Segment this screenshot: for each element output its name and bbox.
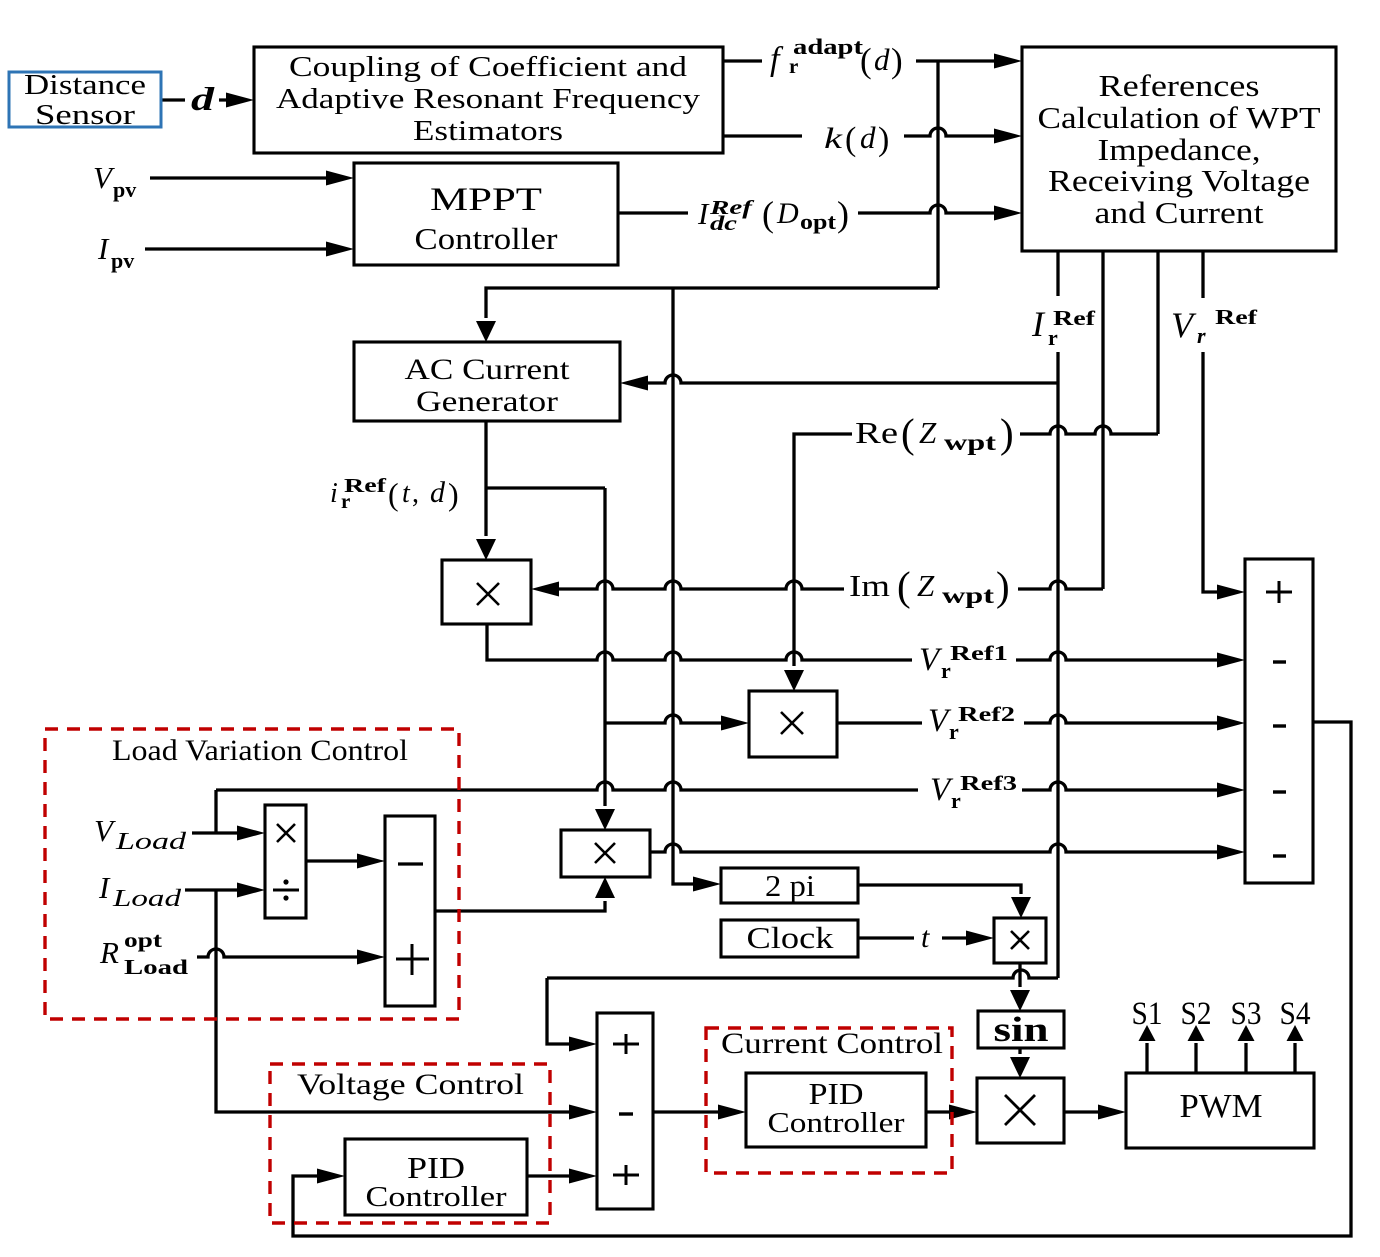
svg-text:(: ( (901, 410, 915, 456)
svg-text:V: V (93, 160, 115, 195)
arrowhead Vr_Ref2 into summer (1217, 716, 1245, 731)
wire sin output down to multiplier M5 (1018, 1048, 1021, 1054)
block Coupling of Coefficient and Adaptive Resonant Frequency Estimators (254, 47, 723, 153)
arrowhead d into Coupling (226, 93, 254, 108)
svg-text:(: ( (388, 476, 399, 512)
arrowhead Ipv into MPPT (326, 242, 354, 257)
block MPPT Controller (354, 163, 618, 265)
svg-text:Z: Z (919, 415, 937, 450)
arrowhead Im into multiplier M1 right (531, 582, 559, 597)
wire Vr_Ref vertical x=1203 from References down into summer plus input (1203, 251, 1221, 592)
symbol minus4 summer right (1273, 854, 1286, 857)
svg-text:wpt: wpt (944, 430, 996, 455)
arrowhead S3 (1238, 1025, 1255, 1041)
svg-text:sin: sin (994, 1010, 1049, 1049)
minus-plus block (385, 816, 435, 1006)
block sin (978, 1011, 1064, 1048)
wire S3 output of PWM (1244, 1043, 1247, 1073)
svg-text:Ref3: Ref3 (960, 771, 1017, 795)
label gap Re (852, 410, 1020, 460)
svg-text:Distance: Distance (24, 70, 146, 101)
arrowhead S2 (1188, 1025, 1205, 1041)
svg-text:References: References (1099, 68, 1260, 103)
wire branch from fr line down-left to AC Current Generator (486, 288, 938, 318)
svg-text:): ) (837, 194, 849, 234)
svg-text:Ref: Ref (1053, 306, 1096, 330)
label gap k(d) (802, 116, 904, 160)
svg-text:k: k (824, 122, 843, 155)
arrowhead Vr_Ref1 into summer (1217, 653, 1245, 668)
svg-text:Z: Z (917, 568, 935, 603)
svg-text:): ) (891, 41, 903, 80)
svg-text:Load: Load (124, 955, 188, 979)
svg-text:PWM: PWM (1180, 1088, 1263, 1125)
svg-text:Controller: Controller (768, 1107, 905, 1139)
symbol times in mult-div (277, 824, 295, 842)
mid summer block (597, 1013, 653, 1209)
wire Vpv input to MPPT (150, 176, 332, 179)
svg-text:2 pi: 2 pi (765, 868, 815, 903)
svg-text:Ref2: Ref2 (958, 702, 1015, 726)
wire d: Distance Sensor to Coupling block (161, 98, 232, 101)
svg-text:Calculation of WPT: Calculation of WPT (1038, 100, 1321, 135)
arrowhead mid summer output into current PID (718, 1105, 746, 1120)
svg-text:I: I (98, 870, 111, 905)
svg-text:(: ( (762, 194, 774, 234)
mult-div block (265, 805, 306, 918)
wire Vr_Ref1: multiplier M1 output to summer, hops at 605 673 794 1058 (487, 624, 1221, 660)
wire fr_adapt(d): Coupling to References, with branch node at x=938 (723, 61, 998, 288)
symbol times M3 (595, 843, 615, 863)
svg-text:Generator: Generator (416, 385, 558, 418)
dashed box Current Control (706, 1028, 952, 1173)
svg-text:Clock: Clock (747, 920, 835, 955)
arrowhead left into AC Current Generator right side (620, 376, 648, 391)
arrowhead S4 (1287, 1025, 1304, 1041)
svg-text:(: ( (845, 121, 856, 158)
arrowhead into 2pi box (693, 877, 721, 892)
block References Calculation (1022, 47, 1336, 251)
arrowhead Vpv into MPPT (326, 171, 354, 186)
svg-text:S4: S4 (1280, 996, 1311, 1032)
svg-text:i: i (330, 478, 338, 509)
svg-text:Controller: Controller (366, 1181, 507, 1213)
svg-text:Sensor: Sensor (35, 100, 136, 131)
symbol plus top mid summer (613, 1034, 639, 1054)
svg-text:d: d (191, 82, 215, 118)
wire voltage PID output to mid summer bottom plus input (527, 1174, 573, 1177)
arrowhead RLoad into minus-plus (357, 950, 385, 965)
svg-text:(: ( (860, 41, 872, 80)
label gap Vr_Ref3 (918, 769, 1022, 813)
wire vertical x=1103 from References to Im line (1101, 251, 1104, 589)
wire Clock output t to multiplier M4 left (858, 936, 970, 939)
arrowhead down into AC Current Generator top (476, 321, 496, 342)
svg-text:t: t (921, 921, 930, 954)
summer right block (1245, 559, 1313, 883)
wire vertical x=1158 from References to Re line (1156, 251, 1159, 434)
block Distance Sensor (blue) (9, 72, 161, 127)
svg-text:Estimators: Estimators (413, 115, 563, 147)
wire from x=605 node to multiplier M2 left input, hop at x=673 (605, 715, 725, 723)
arrowhead down into multiplier M3 top (595, 809, 615, 830)
arrowhead Vr_Ref into summer plus (1217, 585, 1245, 600)
dashed box Load Variation Control (45, 729, 459, 1019)
svg-text:d: d (874, 42, 890, 77)
symbol plus summer right (1266, 581, 1292, 603)
symbol times M5 (1005, 1095, 1035, 1125)
symbol divide in mult-div (273, 889, 299, 892)
svg-text:AC Current: AC Current (405, 353, 571, 386)
svg-text:D: D (776, 197, 799, 230)
arrowhead voltage PID output into mid summer bottom plus (569, 1169, 597, 1184)
symbol times M2 (781, 712, 803, 734)
svg-text:opt: opt (124, 928, 162, 952)
svg-text:pv: pv (113, 177, 136, 202)
symbol times M1 (477, 583, 499, 605)
arrowhead down into multiplier M1 top (476, 539, 496, 560)
wire mult-div block output to minus-plus block (306, 859, 361, 862)
wire feedback: summer output right, down, along bottom, up into voltage PID (293, 722, 1351, 1236)
svg-text:Adaptive Resonant Frequency: Adaptive Resonant Frequency (276, 83, 701, 115)
label gap d (185, 84, 219, 116)
svg-text:and Current: and Current (1095, 195, 1264, 230)
symbol minus2 summer right (1273, 724, 1286, 727)
wire multiplier M4 output down to sin block (1018, 963, 1021, 987)
label gap Idc (688, 190, 858, 240)
svg-text:wpt: wpt (942, 583, 994, 608)
svg-text:,: , (412, 478, 419, 509)
svg-text:Controller: Controller (415, 221, 559, 256)
wire VLoad input (192, 831, 242, 834)
block AC Current Generator (354, 342, 620, 421)
symbol times M4 (1011, 931, 1029, 949)
dashed box Voltage Control (270, 1064, 550, 1223)
multiplier M4 (994, 918, 1046, 963)
wire Idc_Ref(Dopt): MPPT to References, hop at x=938 (618, 205, 998, 213)
arrowhead VLoad into mult-div (237, 826, 265, 841)
label gap Vr_Ref1 (912, 640, 1016, 682)
wire vertical x=605 from branch down to multiplier M3 (603, 488, 606, 806)
block 2pi (721, 868, 858, 903)
symbol minus in minus-plus block (398, 862, 423, 865)
block voltage PID Controller (345, 1139, 527, 1215)
svg-text:Current Control: Current Control (721, 1027, 943, 1060)
svg-text:dc: dc (710, 211, 738, 235)
block current PID Controller (746, 1073, 926, 1147)
arrowhead down into multiplier M4 top (1011, 897, 1031, 918)
symbol minus3 summer right (1273, 790, 1286, 793)
svg-text:Load Variation Control: Load Variation Control (112, 734, 408, 767)
svg-text:Impedance,: Impedance, (1098, 132, 1261, 167)
arrowhead down into multiplier M2 top (784, 670, 804, 691)
multiplier M3 (561, 830, 650, 877)
svg-text:Ref: Ref (1215, 305, 1258, 329)
svg-text:r: r (1197, 323, 1206, 348)
arrowhead up into multiplier M3 bottom (595, 877, 615, 898)
svg-text:(: ( (897, 563, 911, 609)
wire Re(Zwpt) left branch down to multiplier M2 top (794, 434, 868, 666)
svg-text:I: I (1031, 304, 1046, 344)
svg-text:t: t (402, 478, 411, 509)
svg-text:PID: PID (407, 1150, 465, 1185)
arrowhead down into sin (1010, 990, 1030, 1011)
block Clock (721, 920, 858, 957)
svg-text:Load: Load (112, 886, 183, 912)
svg-text:V: V (94, 813, 116, 848)
svg-text:PID: PID (809, 1076, 864, 1111)
svg-text:Voltage Control: Voltage Control (297, 1068, 524, 1101)
wire ILoad branch down x=216 and right into mid summer minus input (216, 890, 573, 1112)
svg-text:): ) (1000, 410, 1014, 456)
svg-text:d: d (860, 120, 876, 155)
wire RLoad_opt input, hop at x=216 (197, 949, 361, 957)
wire Re(Zwpt) right to vertical x=1158, hops at 1058 and 1103 (1015, 426, 1158, 434)
arrowhead into mid summer top plus (569, 1037, 597, 1052)
symbol plus in minus-plus block (396, 944, 429, 975)
symbol minus mid summer (619, 1112, 633, 1115)
svg-text:pv: pv (111, 248, 134, 273)
svg-text:Ref: Ref (344, 475, 386, 497)
svg-text:MPPT: MPPT (430, 182, 542, 218)
multiplier M5 (977, 1078, 1064, 1143)
svg-text:Load: Load (115, 829, 188, 855)
wire vertical Ir_Ref x=1058 from References down, left along y=978, down into mid summer plus input (547, 251, 1058, 1044)
svg-text:S1: S1 (1132, 996, 1163, 1032)
wire current PID output to multiplier M5 (926, 1110, 953, 1113)
arrowhead mult-div output into minus-plus (357, 854, 385, 869)
wire multiplier M5 output to PWM (1064, 1110, 1102, 1113)
svg-text:): ) (878, 121, 889, 158)
arrowhead k into References (994, 129, 1022, 144)
svg-text:S3: S3 (1231, 996, 1262, 1032)
arrowhead into multiplier M2 left (721, 716, 749, 731)
label gap fr_adapt (762, 36, 916, 84)
svg-text:S2: S2 (1181, 996, 1212, 1032)
wire 2pi output to multiplier M4 top (858, 885, 1021, 894)
wire S4 output of PWM (1293, 1043, 1296, 1073)
multiplier M2 (749, 691, 837, 757)
wire S1 output of PWM (1145, 1043, 1148, 1073)
svg-text:): ) (448, 476, 459, 512)
svg-text:I: I (697, 196, 710, 231)
wire Ir_Ref feedback into AC Current Generator right side, hop at x=673 (646, 375, 1058, 383)
wire k(d): Coupling to References, hop at x=938 (723, 128, 998, 136)
label gap Ir_Ref (1028, 296, 1098, 352)
svg-text:): ) (996, 563, 1010, 609)
arrowhead Idc into References (994, 206, 1022, 221)
svg-text:Ref1: Ref1 (950, 641, 1008, 665)
wire Vr_Ref2: multiplier M2 output to summer, hop at 1058 (837, 715, 1221, 723)
svg-text:Im: Im (849, 568, 890, 603)
svg-text:Receiving Voltage: Receiving Voltage (1048, 163, 1310, 198)
arrowhead into PWM (1098, 1105, 1126, 1120)
arrowhead ILoad into mult-div (237, 883, 265, 898)
block PWM (1126, 1073, 1314, 1148)
svg-text:Coupling of Coefficient and: Coupling of Coefficient and (289, 51, 688, 83)
symbol minus1 summer right (1273, 660, 1286, 663)
label gap Vr_Ref (1168, 298, 1250, 352)
wire multiplier M3 output to summer bottom minus input, hops at 673 1058 (650, 844, 1221, 852)
svg-text:R: R (99, 935, 119, 970)
wire Ipv input to MPPT (145, 247, 332, 250)
arrowhead feedback into voltage PID (317, 1169, 345, 1184)
wire mid summer output to current PID (653, 1110, 722, 1113)
arrowhead M3 output into summer (1217, 845, 1245, 860)
wire Im(Zwpt) to multiplier M1 right input, hops at 605 673 794 1058 (555, 581, 1103, 589)
arrowhead down into multiplier M5 (1010, 1057, 1030, 1078)
wire Vr_Ref3: from VLoad node x=216 up and right to summer, hops at 605 673 1058 (216, 782, 1221, 833)
svg-text:I: I (97, 231, 110, 266)
svg-text:Re: Re (855, 415, 898, 450)
wire minus-plus block output up into multiplier M3 bottom (435, 901, 605, 911)
multiplier M1 (442, 560, 531, 624)
wire S2 output of PWM (1194, 1043, 1197, 1073)
arrowhead t into multiplier M4 left (966, 931, 994, 946)
label gap t (914, 922, 942, 954)
svg-text:opt: opt (800, 209, 837, 234)
wire long vertical x=673 from node down to 2pi box (673, 288, 695, 884)
wire ILoad input (185, 888, 242, 891)
label gap Im (844, 564, 1018, 610)
dots of divide symbol (283, 879, 288, 884)
arrowhead fr into References (994, 54, 1022, 69)
arrowhead PID into multiplier M5 (949, 1105, 977, 1120)
svg-text:adapt: adapt (793, 34, 864, 59)
wire AC Current Generator output down to multiplier M1, branch at y=488 (486, 421, 605, 536)
arrowhead S1 (1139, 1025, 1156, 1041)
arrowhead Vr_Ref3 into summer (1217, 783, 1245, 798)
arrowhead into mid summer minus (569, 1105, 597, 1120)
label gap Vr_Ref2 (922, 701, 1024, 745)
symbol plus bottom mid summer (613, 1165, 639, 1185)
svg-text:d: d (430, 476, 446, 509)
